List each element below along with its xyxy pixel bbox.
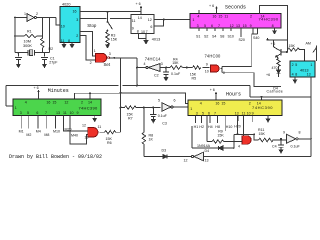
power +6 transistor bbox=[266, 38, 287, 46]
wire y85 to hours pin15 bbox=[137, 86, 311, 101]
svg-text:M10: M10 bbox=[53, 129, 60, 133]
IC U8 4017 bbox=[290, 61, 315, 77]
svg-text:Drawn by Bill Bowden - 09/18/0: Drawn by Bill Bowden - 09/18/02 bbox=[9, 154, 102, 160]
svg-text:13: 13 bbox=[235, 111, 239, 115]
wire 4020 to Set gate input2 bbox=[80, 32, 96, 56]
svg-text:11: 11 bbox=[98, 125, 102, 129]
svg-text:9: 9 bbox=[206, 62, 208, 66]
IC U9 Minutes 74HC390 bbox=[13, 88, 101, 116]
inverter U3B pin5 pin6 bbox=[158, 99, 176, 112]
wire minutes clock top bbox=[75, 92, 121, 99]
svg-text:+ 6: + 6 bbox=[209, 4, 214, 8]
wire gate out to R11 bbox=[254, 139, 259, 141]
switch AM bbox=[306, 41, 317, 61]
IC U2 4020 counter bbox=[60, 3, 80, 43]
node S1 S2 S4 S8 S10 stubs bbox=[199, 28, 231, 31]
svg-text:3: 3 bbox=[196, 111, 198, 115]
diode D3 bbox=[144, 148, 191, 158]
wire Set output node bbox=[110, 57, 137, 59]
svg-text:10: 10 bbox=[205, 70, 209, 74]
svg-text:12: 12 bbox=[148, 18, 152, 22]
svg-text:M4: M4 bbox=[36, 129, 41, 133]
svg-text:+ 6: + 6 bbox=[210, 88, 215, 92]
capacitor C4 0.1uF bbox=[272, 138, 300, 150]
resistor R6 15K bbox=[100, 131, 121, 146]
node M1 M2 M4 M8 M10 stubs bbox=[22, 115, 56, 128]
svg-text:8: 8 bbox=[68, 39, 70, 43]
svg-text:15: 15 bbox=[243, 24, 247, 28]
svg-text:2: 2 bbox=[250, 15, 252, 19]
svg-text:4013: 4013 bbox=[300, 69, 308, 73]
svg-text:1: 1 bbox=[15, 106, 17, 110]
power +6 arrow hours pin16 bbox=[210, 88, 218, 100]
node dots oscillator bbox=[14, 17, 45, 54]
wire left return to Minutes pin1 bbox=[6, 58, 138, 106]
svg-text:1: 1 bbox=[192, 18, 194, 22]
ground hours bbox=[266, 115, 271, 123]
svg-text:+ 6: + 6 bbox=[136, 2, 141, 6]
svg-text:H4: H4 bbox=[208, 125, 213, 129]
gate U10 minutes reset bbox=[82, 124, 101, 140]
svg-text:S10: S10 bbox=[228, 34, 234, 38]
svg-text:S40: S40 bbox=[253, 36, 259, 40]
svg-text:R1: R1 bbox=[27, 30, 32, 34]
resistor R12 470 bbox=[272, 58, 281, 70]
svg-text:AM: AM bbox=[306, 41, 311, 45]
svg-text:7: 7 bbox=[146, 30, 148, 34]
svg-text:5: 5 bbox=[158, 99, 160, 103]
svg-text:2: 2 bbox=[90, 61, 92, 65]
svg-text:4013: 4013 bbox=[152, 38, 160, 42]
svg-text:H10: H10 bbox=[226, 125, 233, 129]
svg-text:4: 4 bbox=[292, 72, 294, 76]
svg-text:Stop: Stop bbox=[87, 23, 97, 28]
svg-text:4: 4 bbox=[25, 100, 27, 104]
power +6 arrow seconds bbox=[209, 4, 218, 14]
svg-text:5: 5 bbox=[204, 24, 206, 28]
wire 4020 pin16 to 4013 bbox=[80, 11, 141, 13]
ground under 4013 bbox=[139, 34, 149, 45]
svg-text:3: 3 bbox=[76, 18, 78, 22]
svg-text:9: 9 bbox=[77, 111, 79, 115]
svg-text:R7: R7 bbox=[128, 117, 133, 121]
svg-text:15: 15 bbox=[221, 101, 225, 105]
svg-text:7: 7 bbox=[218, 24, 220, 28]
svg-text:11: 11 bbox=[242, 111, 246, 115]
svg-text:R5: R5 bbox=[192, 77, 197, 81]
svg-text:S8: S8 bbox=[220, 34, 224, 38]
wire 74HC14 input drop bbox=[136, 58, 146, 86]
node D4 Cathode label bbox=[267, 86, 284, 93]
svg-text:1: 1 bbox=[190, 107, 192, 111]
capacitor C2 0.1uF bbox=[154, 68, 181, 78]
svg-text:4: 4 bbox=[200, 101, 202, 105]
svg-text:7: 7 bbox=[45, 111, 47, 115]
resistor R11 15K bbox=[258, 128, 286, 142]
node labels M1 M2 M4 M8 M10 bbox=[19, 129, 60, 137]
crystal Y1 bbox=[28, 50, 35, 56]
IC U7 Seconds 74HC390 bbox=[190, 5, 281, 28]
wire oscillator loop bbox=[15, 18, 60, 53]
svg-text:11: 11 bbox=[224, 15, 228, 19]
svg-text:4: 4 bbox=[197, 15, 199, 19]
wire M40 to gate bbox=[70, 115, 88, 144]
svg-text:6: 6 bbox=[150, 25, 152, 29]
svg-text:15: 15 bbox=[52, 100, 56, 104]
svg-text:16: 16 bbox=[73, 9, 77, 13]
svg-text:4: 4 bbox=[144, 62, 146, 66]
svg-text:D3: D3 bbox=[162, 148, 167, 152]
resistor R1 10M 300K bbox=[23, 30, 37, 48]
inverter U1A pin1 pin2 bbox=[24, 12, 38, 21]
svg-text:M8: M8 bbox=[44, 133, 49, 137]
svg-text:C3: C3 bbox=[162, 121, 167, 125]
inverter U13 pin9 pin8 bbox=[283, 130, 301, 143]
svg-text:74HC390: 74HC390 bbox=[259, 17, 279, 22]
svg-text:Hours: Hours bbox=[226, 92, 241, 98]
ground seconds pin8 bbox=[272, 28, 277, 35]
gate U5 Set (NAND) bbox=[90, 49, 111, 67]
IC U11 Hours 74HC390 bbox=[188, 92, 282, 116]
svg-text:+6: +6 bbox=[266, 73, 270, 77]
svg-text:+ 6: + 6 bbox=[34, 86, 39, 90]
svg-text:9: 9 bbox=[283, 130, 285, 134]
resistor R10 15K base bbox=[288, 44, 305, 61]
capacitor C1 27pF bbox=[41, 56, 58, 64]
wire 4013 Q feedback staple bbox=[154, 19, 165, 27]
power +6 arrow above 4013 bbox=[136, 2, 143, 15]
svg-text:8: 8 bbox=[137, 29, 139, 33]
ground under 4017 bbox=[293, 77, 298, 84]
svg-text:13: 13 bbox=[307, 72, 311, 76]
svg-text:2: 2 bbox=[76, 34, 78, 38]
svg-text:4: 4 bbox=[238, 145, 240, 149]
wire bottom return bbox=[204, 156, 312, 158]
resistor R4 15K bbox=[170, 57, 182, 69]
ground under R3 bbox=[105, 44, 110, 48]
IC U4 4013 flip-flop bbox=[131, 15, 160, 42]
svg-text:H1: H1 bbox=[194, 125, 199, 129]
switch Stop bbox=[87, 12, 112, 32]
svg-text:13: 13 bbox=[205, 158, 209, 162]
svg-text:6: 6 bbox=[208, 111, 210, 115]
resistor R8 1K bbox=[142, 108, 153, 157]
wire 4013 output to Seconds pin1 bbox=[164, 19, 190, 21]
resistor R3 15K bbox=[106, 32, 118, 45]
ground under 4020 pin8 bbox=[70, 43, 75, 49]
svg-text:1K: 1K bbox=[149, 138, 154, 142]
svg-text:6: 6 bbox=[211, 24, 213, 28]
svg-text:9: 9 bbox=[252, 111, 254, 115]
svg-text:74HC390: 74HC390 bbox=[79, 106, 98, 111]
wire crystal row bbox=[15, 48, 50, 57]
svg-text:6: 6 bbox=[174, 99, 176, 103]
svg-text:2: 2 bbox=[36, 12, 38, 16]
value label R7 bbox=[127, 113, 134, 121]
svg-text:15K: 15K bbox=[259, 132, 266, 136]
svg-text:Cathode: Cathode bbox=[267, 89, 284, 93]
svg-text:H8: H8 bbox=[215, 125, 220, 129]
wire 4020 pin2 to Set gate input1 bbox=[80, 35, 96, 60]
svg-text:15K: 15K bbox=[217, 133, 224, 137]
svg-text:11: 11 bbox=[63, 111, 67, 115]
svg-text:12: 12 bbox=[82, 124, 86, 128]
ground under C3 bbox=[151, 119, 156, 123]
svg-text:74HC390: 74HC390 bbox=[252, 105, 273, 110]
power +6 arrow minutes bbox=[34, 86, 40, 99]
wire inverter8 to bottom loop bbox=[298, 77, 312, 157]
wire S20 S40 drops bbox=[241, 28, 258, 67]
wire seconds pin14 right loop bbox=[199, 6, 288, 53]
svg-text:1N914A: 1N914A bbox=[197, 144, 211, 148]
capacitor C2 left bbox=[15, 57, 22, 62]
ground under C2 bbox=[16, 63, 21, 69]
svg-text:15K: 15K bbox=[111, 38, 118, 42]
wire long vertical set line bbox=[120, 58, 122, 132]
svg-text:2: 2 bbox=[249, 101, 251, 105]
transistor Q1 bbox=[274, 40, 288, 59]
svg-text:0.1uF: 0.1uF bbox=[158, 114, 168, 118]
svg-text:15K: 15K bbox=[172, 61, 179, 65]
diode D4 1N914A bbox=[192, 126, 235, 153]
svg-text:14: 14 bbox=[88, 100, 92, 104]
svg-text:3: 3 bbox=[109, 52, 111, 56]
svg-text:Seconds: Seconds bbox=[225, 5, 246, 11]
svg-text:16: 16 bbox=[215, 101, 219, 105]
node H1 H2 H4 H8 stubs bbox=[196, 115, 226, 141]
svg-text:H2: H2 bbox=[199, 125, 204, 129]
svg-text:M1: M1 bbox=[19, 129, 24, 133]
wire R1 row bbox=[15, 35, 42, 37]
svg-text:M2: M2 bbox=[26, 133, 31, 137]
svg-text:Minutes: Minutes bbox=[48, 88, 69, 94]
svg-text:D4: D4 bbox=[205, 149, 210, 153]
svg-text:8: 8 bbox=[299, 130, 301, 134]
svg-text:9: 9 bbox=[250, 24, 252, 28]
svg-text:12: 12 bbox=[64, 100, 68, 104]
wire inverter6 to hours bbox=[173, 106, 188, 108]
svg-text:10: 10 bbox=[61, 24, 65, 28]
svg-text:16: 16 bbox=[46, 100, 50, 104]
resistor R2 bbox=[41, 38, 54, 51]
svg-text:S1: S1 bbox=[196, 34, 200, 38]
svg-text:11: 11 bbox=[132, 19, 136, 23]
svg-text:R6: R6 bbox=[107, 141, 112, 145]
svg-text:5: 5 bbox=[202, 111, 204, 115]
gate U12 hours reset bbox=[238, 136, 251, 149]
svg-text:12: 12 bbox=[184, 158, 188, 162]
svg-text:R2: R2 bbox=[49, 47, 54, 51]
svg-text:8: 8 bbox=[295, 72, 297, 76]
svg-text:1: 1 bbox=[310, 63, 312, 67]
svg-text:10: 10 bbox=[141, 30, 145, 34]
wire M20 to gate bbox=[64, 115, 88, 131]
svg-text:+ 6: + 6 bbox=[271, 42, 276, 46]
ground under C1 bbox=[42, 63, 47, 69]
svg-text:S2: S2 bbox=[204, 34, 208, 38]
node labels H1 H2 H4 H8 bbox=[194, 125, 220, 129]
svg-text:2: 2 bbox=[292, 63, 294, 67]
svg-text:1: 1 bbox=[24, 12, 26, 16]
svg-text:0.1uF: 0.1uF bbox=[291, 145, 301, 149]
svg-text:C2: C2 bbox=[154, 73, 159, 77]
svg-text:13: 13 bbox=[236, 24, 240, 28]
svg-text:15K: 15K bbox=[289, 44, 296, 48]
resistor R7 15K bbox=[120, 106, 145, 109]
svg-text:300K: 300K bbox=[23, 44, 32, 48]
svg-text:5: 5 bbox=[27, 111, 29, 115]
svg-text:M40: M40 bbox=[71, 133, 78, 137]
wire minutes-hours clock line bbox=[120, 92, 189, 104]
svg-text:4020: 4020 bbox=[62, 3, 70, 7]
svg-text:7: 7 bbox=[214, 111, 216, 115]
svg-text:S20: S20 bbox=[239, 38, 245, 42]
svg-text:0.1uF: 0.1uF bbox=[171, 72, 181, 76]
svg-text:Set: Set bbox=[104, 62, 111, 67]
svg-text:14: 14 bbox=[138, 16, 142, 20]
svg-text:8: 8 bbox=[272, 24, 274, 28]
svg-text:5: 5 bbox=[295, 63, 297, 67]
svg-text:27pF: 27pF bbox=[49, 61, 58, 65]
svg-text:3: 3 bbox=[20, 111, 22, 115]
wire 4020 pin3 to 4013 bbox=[80, 17, 131, 19]
svg-text:2: 2 bbox=[81, 100, 83, 104]
diode D4 LED colon bbox=[277, 68, 281, 77]
wire to D4 cathode net bbox=[254, 73, 281, 87]
svg-text:C4: C4 bbox=[272, 145, 277, 149]
svg-text:S4: S4 bbox=[212, 34, 216, 38]
ground minutes bbox=[92, 115, 97, 122]
svg-text:10: 10 bbox=[247, 111, 251, 115]
ground under 4020 pin11 bbox=[62, 43, 67, 49]
inverter U14 pin12 pin13 bbox=[184, 152, 209, 162]
node labels H10 H20 bbox=[226, 125, 241, 129]
wire hours pins to gate bbox=[234, 115, 255, 148]
svg-text:3: 3 bbox=[197, 24, 199, 28]
svg-text:9: 9 bbox=[132, 26, 134, 30]
gate U6 74HC00 seconds reset bbox=[205, 53, 225, 74]
capacitor C3 0.1uF bbox=[150, 107, 168, 126]
wire 74HC14 out to gate bbox=[160, 67, 210, 69]
svg-text:12: 12 bbox=[230, 24, 234, 28]
ground under C2 bbox=[164, 77, 169, 81]
resistor R5 15K bbox=[190, 66, 201, 81]
svg-text:1: 1 bbox=[94, 49, 96, 53]
resistor R9 15K bbox=[207, 130, 242, 144]
svg-text:16: 16 bbox=[212, 15, 216, 19]
svg-text:3: 3 bbox=[161, 62, 163, 66]
node labels S1 S2 S4 S8 bbox=[196, 34, 259, 42]
wire gate output staple bbox=[221, 67, 254, 73]
inverter U3 74HC14 pin4 pin3 bbox=[144, 56, 163, 71]
svg-text:74HC00: 74HC00 bbox=[205, 53, 221, 58]
svg-text:10: 10 bbox=[70, 111, 74, 115]
svg-text:11: 11 bbox=[61, 39, 65, 43]
ground under C4 bbox=[279, 150, 284, 154]
svg-text:6: 6 bbox=[36, 111, 38, 115]
svg-text:74HC14: 74HC14 bbox=[145, 56, 161, 61]
svg-text:15: 15 bbox=[218, 15, 222, 19]
wire R7 to inverter bbox=[144, 107, 161, 109]
svg-text:13: 13 bbox=[56, 111, 60, 115]
node H10 H20 stubs bbox=[238, 115, 252, 122]
svg-text:13: 13 bbox=[84, 136, 88, 140]
